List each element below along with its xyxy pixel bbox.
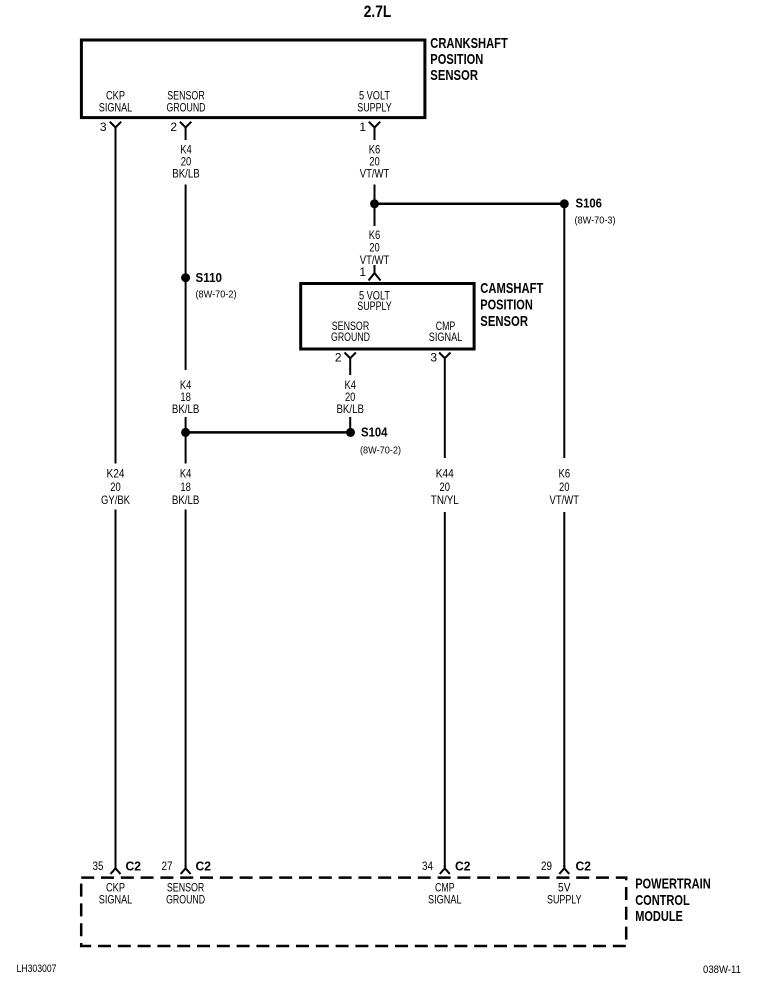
svg-text:GROUND: GROUND — [167, 100, 206, 114]
label SENSOR GROUND — [167, 88, 206, 114]
svg-text:(8W-70-2): (8W-70-2) — [196, 289, 237, 301]
camshaft pin 1 connector (half Y up) — [369, 267, 381, 281]
wire camshaft CMP signal down (K44) — [444, 358, 446, 867]
svg-text:29: 29 — [541, 859, 552, 873]
label POWERTRAIN CONTROL MODULE — [635, 876, 711, 925]
PCM pin 27 connector (half Y down) — [181, 865, 191, 874]
svg-text:SIGNAL: SIGNAL — [99, 100, 133, 114]
svg-text:TN/YL: TN/YL — [431, 493, 459, 507]
svg-text:POSITION: POSITION — [480, 297, 533, 314]
svg-text:20: 20 — [559, 480, 570, 494]
svg-text:C2: C2 — [196, 858, 212, 873]
svg-text:SUPPLY: SUPPLY — [357, 299, 392, 313]
svg-text:VT/WT: VT/WT — [550, 493, 580, 507]
splice S104 label — [360, 425, 401, 457]
svg-text:2.7L: 2.7L — [364, 2, 392, 21]
svg-text:CRANKSHAFT: CRANKSHAFT — [430, 35, 508, 52]
svg-text:2: 2 — [335, 351, 342, 365]
svg-text:S104: S104 — [361, 425, 388, 440]
svg-text:GROUND: GROUND — [166, 893, 205, 907]
svg-text:20: 20 — [440, 480, 451, 494]
wire: horizontal sensor ground to S104 — [186, 431, 351, 434]
svg-text:2: 2 — [170, 120, 177, 134]
label 5V SUPPLY (PCM) — [547, 880, 582, 906]
wire label K24 20 GY/BK — [93, 464, 138, 510]
svg-text:038W-11: 038W-11 — [703, 964, 741, 976]
wire label K4 20 BK/LB (upper) — [163, 140, 208, 185]
svg-text:C2: C2 — [455, 858, 471, 873]
wire label K6 20 VT/WT (lower, to camshaft) — [352, 226, 397, 267]
wire camshaft sensor ground to S104 — [349, 358, 351, 432]
svg-text:3: 3 — [430, 351, 437, 365]
wire label K44 20 TN/YL — [422, 458, 468, 512]
camshaft pin 2 connector Y — [345, 353, 356, 359]
svg-text:K4: K4 — [180, 467, 192, 481]
svg-text:BK/LB: BK/LB — [336, 402, 364, 416]
svg-text:VT/WT: VT/WT — [360, 166, 390, 180]
label CMP SIGNAL (camshaft) — [429, 319, 463, 344]
svg-text:34: 34 — [422, 859, 433, 873]
svg-text:18: 18 — [180, 480, 191, 494]
svg-text:SENSOR: SENSOR — [430, 67, 478, 84]
svg-text:SIGNAL: SIGNAL — [99, 893, 133, 907]
svg-text:35: 35 — [93, 859, 104, 873]
svg-text:SIGNAL: SIGNAL — [428, 893, 462, 907]
svg-text:LH303007: LH303007 — [17, 963, 57, 975]
splice S106 label — [575, 196, 616, 227]
splice S104 dot — [346, 428, 355, 437]
pin 1 connector Y — [369, 122, 380, 128]
wire sensor ground (K4) — [185, 127, 187, 867]
wire 5 volt supply (K6) upper — [374, 127, 376, 267]
svg-text:MODULE: MODULE — [635, 908, 683, 925]
svg-text:SUPPLY: SUPPLY — [357, 100, 392, 114]
svg-text:3: 3 — [100, 120, 107, 134]
wire CKP signal (K24) — [115, 127, 117, 867]
label CAMSHAFT POSITION SENSOR — [480, 280, 543, 330]
label 5 VOLT SUPPLY (camshaft) — [357, 288, 392, 313]
label CKP SIGNAL — [99, 88, 133, 114]
svg-text:K6: K6 — [559, 467, 571, 481]
label CRANKSHAFT POSITION SENSOR — [430, 35, 508, 84]
svg-text:POSITION: POSITION — [430, 51, 483, 68]
svg-text:CAMSHAFT: CAMSHAFT — [480, 280, 543, 297]
junction dot at 5V supply split — [370, 199, 379, 208]
svg-text:GROUND: GROUND — [331, 330, 370, 344]
svg-text:(8W-70-2): (8W-70-2) — [360, 445, 401, 457]
label CKP SIGNAL (PCM) — [99, 880, 133, 906]
wire label K6 20 VT/WT (upper) — [352, 140, 397, 185]
label 5 VOLT SUPPLY — [357, 88, 392, 114]
svg-text:BK/LB: BK/LB — [172, 493, 200, 507]
svg-text:POWERTRAIN: POWERTRAIN — [635, 876, 711, 893]
camshaft pin 3 connector Y — [439, 353, 450, 359]
wire label K4 18 BK/LB (lower) — [163, 464, 208, 510]
svg-text:C2: C2 — [126, 858, 142, 873]
svg-text:C2: C2 — [576, 858, 592, 873]
label CMP SIGNAL (PCM) — [428, 880, 462, 906]
svg-text:27: 27 — [162, 859, 173, 873]
label SENSOR GROUND (PCM) — [166, 880, 205, 906]
svg-text:GY/BK: GY/BK — [101, 493, 130, 507]
svg-text:CONTROL: CONTROL — [635, 892, 690, 909]
pin 3 connector Y — [110, 122, 121, 128]
splice S106 dot — [560, 199, 569, 208]
svg-text:1: 1 — [359, 265, 366, 279]
label SENSOR GROUND (camshaft) — [331, 319, 370, 344]
wire label K4 18 BK/LB (middle) — [163, 370, 208, 417]
svg-text:K24: K24 — [107, 467, 125, 481]
svg-text:SUPPLY: SUPPLY — [547, 893, 582, 907]
splice S110 label — [196, 270, 237, 301]
svg-text:(8W-70-3): (8W-70-3) — [575, 215, 616, 227]
PCM pin 35 connector (half Y down) — [111, 865, 121, 874]
connector box: camshaft position sensor — [301, 284, 474, 350]
connector box: crankshaft position sensor — [81, 40, 425, 118]
svg-text:K44: K44 — [436, 467, 454, 481]
wire: S106 down to PCM (K6) — [563, 204, 565, 867]
svg-text:SIGNAL: SIGNAL — [429, 330, 463, 344]
wire label K4 20 BK/LB (camshaft ground) — [328, 375, 373, 417]
wire label K6 20 VT/WT (lower) — [542, 458, 587, 512]
svg-text:BK/LB: BK/LB — [172, 402, 200, 416]
PCM pin 29 connector (half Y down) — [559, 865, 569, 874]
junction dot sensor ground — [181, 428, 190, 437]
PCM pin 34 connector (half Y down) — [440, 865, 450, 874]
module box: powertrain control module (dashed) — [81, 878, 626, 946]
svg-text:20: 20 — [110, 480, 121, 494]
svg-text:BK/LB: BK/LB — [172, 166, 200, 180]
svg-text:S110: S110 — [196, 270, 223, 285]
svg-text:SENSOR: SENSOR — [480, 313, 528, 330]
svg-text:S106: S106 — [576, 196, 603, 211]
wire: horizontal 5V supply to S106 — [375, 203, 565, 206]
svg-text:1: 1 — [359, 120, 366, 134]
pin 2 connector Y — [180, 122, 191, 128]
splice S110 dot — [181, 273, 190, 282]
